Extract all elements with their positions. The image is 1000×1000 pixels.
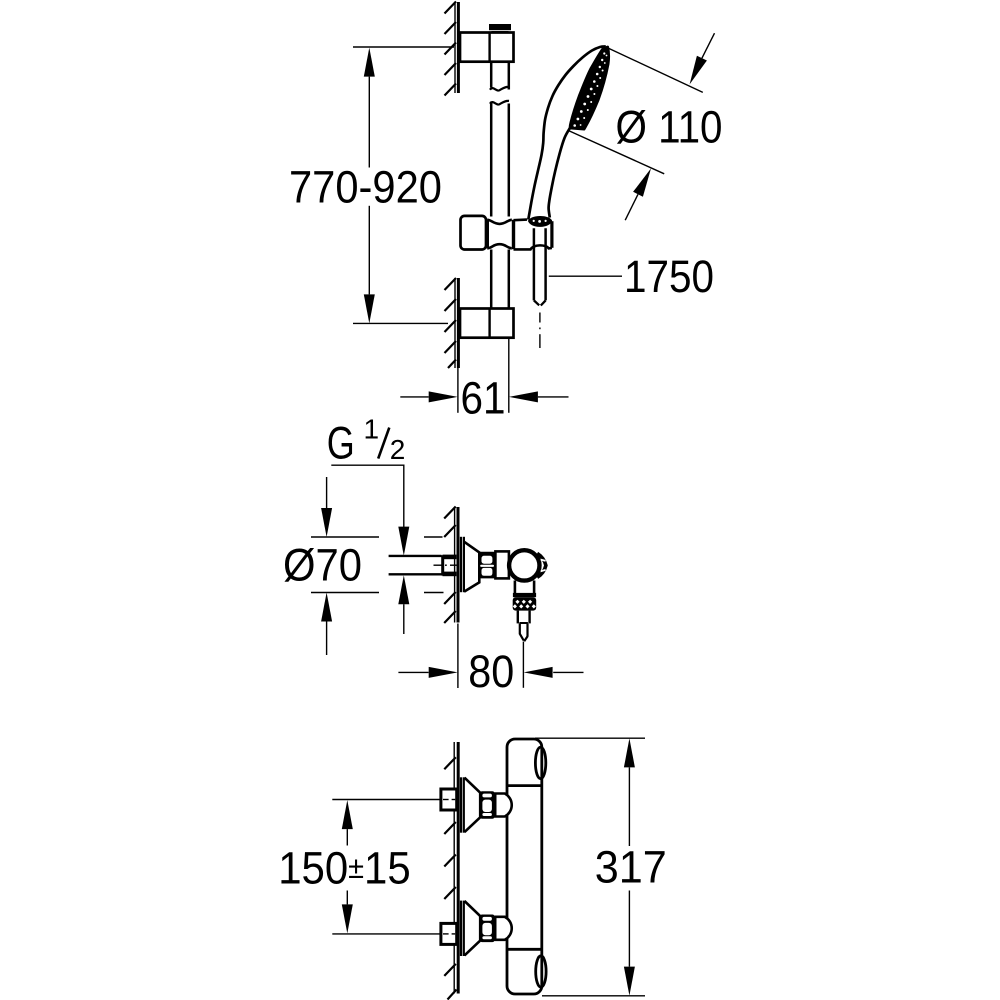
svg-text:80: 80 — [468, 646, 514, 697]
svg-text:150±15: 150±15 — [278, 843, 411, 894]
svg-text:770-920: 770-920 — [289, 161, 442, 212]
svg-text:Ø 110: Ø 110 — [616, 101, 723, 152]
svg-text:2: 2 — [390, 434, 406, 465]
svg-text:1750: 1750 — [624, 251, 714, 302]
svg-text:61: 61 — [461, 373, 506, 424]
svg-text:Ø70: Ø70 — [283, 540, 362, 591]
svg-text:1: 1 — [364, 414, 380, 445]
svg-text:G: G — [327, 417, 355, 468]
svg-text:317: 317 — [595, 842, 667, 893]
